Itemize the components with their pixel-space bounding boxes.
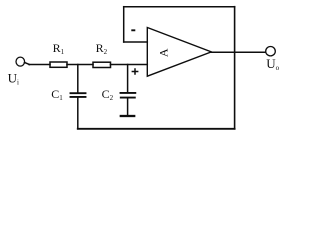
svg-text:Ui: Ui <box>8 71 19 87</box>
svg-text:R1: R1 <box>53 41 65 56</box>
svg-text:R2: R2 <box>96 41 108 56</box>
svg-text:Uo: Uo <box>266 56 279 72</box>
svg-text:C1: C1 <box>51 87 63 102</box>
svg-text:A: A <box>157 48 171 57</box>
svg-text:C2: C2 <box>102 87 114 102</box>
